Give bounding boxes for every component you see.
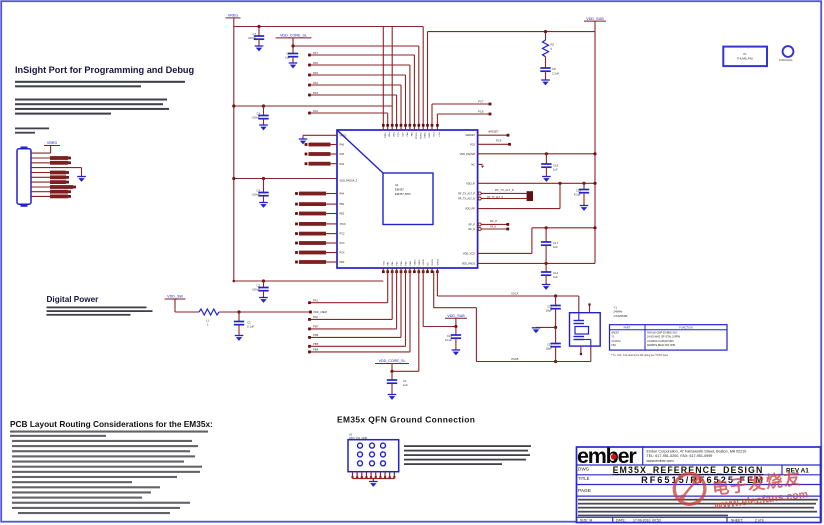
svg-text:18pF: 18pF <box>546 347 553 351</box>
svg-text:EM357: EM357 <box>395 188 404 192</box>
svg-text:0.1uF: 0.1uF <box>247 325 254 329</box>
net VBRD label <box>44 141 60 145</box>
IC right pin labels <box>458 134 476 265</box>
svg-text:SHEET:: SHEET: <box>731 518 743 522</box>
capacitor C1 <box>387 371 408 400</box>
net VDD_SW label <box>165 295 186 299</box>
heading Digital Power <box>47 295 100 304</box>
svg-text:PAGE: PAGE <box>578 488 591 494</box>
wire OSCA <box>437 271 578 298</box>
capacitor C3 <box>234 312 255 341</box>
svg-text:2.2uF: 2.2uF <box>552 71 559 75</box>
wire top rail A <box>234 26 423 28</box>
svg-text:VDD_SW: VDD_SW <box>167 295 183 299</box>
svg-text:NC: NC <box>428 262 430 266</box>
wire J1 pin net SWCLK <box>31 190 71 194</box>
svg-text:DATE:: DATE: <box>616 518 626 522</box>
wire VDD_SUB vertical rail <box>594 32 596 264</box>
svg-text:VDD_PADSM: VDD_PADSM <box>460 153 475 156</box>
wire J1 pin net TXD <box>31 156 71 160</box>
svg-text:OSCA: OSCA <box>511 292 519 296</box>
svg-text:C8: C8 <box>552 67 556 71</box>
IC left pin label PC2 <box>340 233 345 236</box>
IC left pin label PC3 <box>340 242 345 245</box>
label SHEET <box>731 518 764 522</box>
svg-text:1uF: 1uF <box>553 168 558 172</box>
svg-text:LOADING CAPACITORS: LOADING CAPACITORS <box>647 340 674 343</box>
svg-text:VDDC: VDDC <box>414 259 416 266</box>
wire rail y106 <box>232 104 392 124</box>
svg-text:OSCB: OSCB <box>419 133 421 140</box>
net VDD_CORE label bottom <box>375 359 409 363</box>
svg-text:PA5: PA5 <box>313 71 319 75</box>
svg-text:VDD_SUB: VDD_SUB <box>447 314 465 318</box>
svg-text:OSCA: OSCA <box>414 133 417 140</box>
label PAGE <box>578 488 591 494</box>
svg-text:EM35x QFN Ground Connection: EM35x QFN Ground Connection <box>337 415 475 425</box>
svg-text:PC6: PC6 <box>478 109 484 113</box>
svg-text:VBRD: VBRD <box>47 141 58 145</box>
svg-text:100nF: 100nF <box>252 288 260 292</box>
label REV A1 <box>786 468 809 475</box>
svg-text:PB6: PB6 <box>313 333 319 337</box>
wire RF_P <box>478 219 509 226</box>
svg-text:PC6: PC6 <box>496 139 502 143</box>
wire J1 pin net nRST <box>31 180 69 184</box>
svg-text:VDD_RF: VDD_RF <box>465 208 475 211</box>
wire crystal top pin <box>578 296 580 313</box>
net VDD_SUB label top <box>584 17 606 21</box>
wire RF_TX_ALT_P <box>478 188 526 195</box>
svg-text:SIZE: M: SIZE: M <box>580 518 592 522</box>
svg-text:VDD_MEM: VDD_MEM <box>313 310 328 314</box>
resistor R2 <box>543 30 555 57</box>
heading PCB Layout <box>10 419 213 429</box>
wire PC6 <box>437 109 491 125</box>
watermark elecfans <box>673 459 809 516</box>
wire VDD_SUB stem <box>594 21 596 32</box>
QFN pad footprint <box>348 432 399 471</box>
IC left pin labels group1 <box>340 134 347 165</box>
svg-text:JTCK: JTCK <box>340 223 347 226</box>
logo ember <box>577 444 637 468</box>
ground IC left <box>299 139 308 144</box>
svg-text:VDD_CORE_SL: VDD_CORE_SL <box>378 359 405 363</box>
wire VDD_RF <box>478 182 562 209</box>
title RF6515 FEM <box>641 475 765 485</box>
svg-text:OSCA: OSCA <box>436 259 439 266</box>
svg-text:PA0: PA0 <box>313 315 319 319</box>
PCB layout bullet text <box>10 431 208 515</box>
wire VDD_VCO <box>478 226 597 253</box>
label DATE <box>616 518 661 522</box>
svg-text:VDD1: VDD1 <box>383 133 385 140</box>
label DWG <box>578 466 590 471</box>
svg-text:U1: U1 <box>395 183 399 187</box>
net VDD_CORE label top <box>276 34 312 38</box>
net VREG label <box>226 14 241 18</box>
wire stub left PB6 <box>305 143 337 147</box>
svg-text:Ember Corporation, 47 Farnswor: Ember Corporation, 47 Farnsworth Street,… <box>647 449 747 453</box>
svg-text:PA3: PA3 <box>313 91 319 95</box>
wire VDD_PADSM <box>478 152 597 155</box>
wire J1 pin net RXD <box>31 161 71 165</box>
capacitor C19 <box>574 183 589 211</box>
svg-text:100nF: 100nF <box>248 36 256 40</box>
svg-text:VDD_SUB: VDD_SUB <box>586 17 604 21</box>
svg-text:0.1uF: 0.1uF <box>445 338 452 342</box>
capacitor C7 <box>248 25 264 52</box>
capacitor C8 <box>540 57 559 86</box>
svg-text:CX3225SB: CX3225SB <box>614 314 628 318</box>
wire stub PB7 bottom <box>308 271 397 330</box>
IC bottom pin labels <box>383 259 439 266</box>
wire RF_TX_ALT_N <box>478 196 526 200</box>
IC left pin label JTCK <box>340 223 347 226</box>
svg-text:PCB Layout Routing Considerati: PCB Layout Routing Considerations for th… <box>10 419 213 429</box>
wire VDD_CORE to rail <box>291 38 418 125</box>
wire crystal bottom stub <box>580 346 582 355</box>
label Y1 <box>614 306 628 318</box>
heading EM35x QFN Ground Connection <box>337 415 475 425</box>
wire C11 C12 junction to ground <box>536 326 556 328</box>
capacitor C12 <box>546 327 561 363</box>
wire rail A drop 2 <box>391 27 393 107</box>
svg-text:RF_TX_ALT_P: RF_TX_ALT_P <box>495 188 514 192</box>
wire stub PB5 bottom <box>308 271 405 348</box>
svg-text:SINGLE-CHIP ZIGBEE SOC: SINGLE-CHIP ZIGBEE SOC <box>647 332 678 335</box>
capacitor C13 <box>445 327 461 356</box>
svg-text:EM357: EM357 <box>612 332 620 335</box>
svg-text:PB2: PB2 <box>340 213 345 216</box>
svg-text:FERRITE BEAD 600 OHM: FERRITE BEAD 600 OHM <box>647 344 675 347</box>
ground oscillator <box>532 328 541 333</box>
svg-text:18pF: 18pF <box>546 309 553 313</box>
wire VDD_CORE bottom <box>390 271 418 373</box>
svg-text:FB1: FB1 <box>612 344 617 347</box>
wire crystal top stub <box>588 303 590 312</box>
wire stub left PC3 <box>295 241 337 245</box>
IC top pin labels <box>383 133 439 140</box>
wire stub PA2 <box>308 109 388 125</box>
svg-text:OSCB: OSCB <box>432 259 434 266</box>
svg-text:PB4: PB4 <box>313 348 319 352</box>
svg-text:nRESET: nRESET <box>488 130 499 134</box>
wire rail y178 <box>232 177 337 180</box>
terminator RF_TX block <box>527 191 533 201</box>
disclaimer text <box>578 499 818 517</box>
wire J1 pin4 to ground <box>31 168 82 177</box>
svg-text:RF_N: RF_N <box>490 225 497 228</box>
IC top pins <box>382 124 439 130</box>
svg-text:VDD_CORE_SL: VDD_CORE_SL <box>280 34 307 38</box>
title block frame <box>577 447 821 523</box>
svg-text:R2: R2 <box>551 43 555 47</box>
wire J1 pin net PTF <box>31 195 71 199</box>
svg-text:RF_N: RF_N <box>468 228 475 231</box>
junction C3 <box>237 310 240 313</box>
wire VREG stem <box>233 18 235 27</box>
wire rail A drop 1 <box>382 27 384 125</box>
wire stub PB6 bottom <box>308 271 401 339</box>
label SIZE <box>580 518 592 522</box>
ground J1 <box>77 177 86 182</box>
capacitor C4 <box>252 177 269 208</box>
wire PC7 <box>432 99 491 125</box>
connector J1 body <box>17 147 31 207</box>
wire VDD_SUB bottom <box>423 271 457 328</box>
svg-text:PB7: PB7 <box>313 325 319 329</box>
svg-text:PA5: PA5 <box>340 153 345 156</box>
svg-text:FIDUCIAL: FIDUCIAL <box>779 58 793 62</box>
inductor L1 <box>199 309 219 327</box>
address text <box>647 449 747 463</box>
IC left pin label PC4 <box>340 252 345 255</box>
label VDD_MEM <box>313 310 328 314</box>
svg-text:VDDC: VDDC <box>419 259 421 266</box>
wire L1 to rail <box>219 311 312 314</box>
svg-text:VREG: VREG <box>340 134 347 137</box>
wire bottom-left rail y281 <box>233 280 384 283</box>
IC pin label VDD_PADSA <box>340 179 358 182</box>
wire stub left PC2 <box>295 232 337 236</box>
svg-text:PART: PART <box>624 326 631 330</box>
svg-text:PA7: PA7 <box>313 51 319 55</box>
svg-text:PB5: PB5 <box>313 342 319 346</box>
paragraph 2 <box>15 99 169 115</box>
component P1 thermal pad box <box>723 47 767 67</box>
svg-text:VREG: VREG <box>228 14 238 18</box>
paragraph 1 <box>15 81 185 88</box>
title EM35X_REFERENCE_DESIGN <box>613 465 764 475</box>
wire stub PA6 <box>308 61 410 125</box>
wire stub PA7 <box>308 51 414 125</box>
svg-text:PA4: PA4 <box>313 81 319 85</box>
svg-text:100nF: 100nF <box>252 193 260 197</box>
wire stub PA0 bottom <box>308 271 392 321</box>
fiducial FID1 <box>779 46 793 62</box>
wire stub PA5 <box>308 71 405 125</box>
svg-text:2 of 9: 2 of 9 <box>755 518 764 522</box>
svg-text:VDD_IF: VDD_IF <box>466 182 475 185</box>
svg-text:C11/C12: C11/C12 <box>612 340 622 343</box>
svg-text:1uF: 1uF <box>403 383 408 387</box>
wire VDD_PADS <box>478 262 595 265</box>
QFN note text <box>404 445 531 465</box>
capacitor C17 <box>541 228 559 264</box>
svg-text:PB1: PB1 <box>340 203 345 206</box>
svg-text:Digital Power: Digital Power <box>47 295 100 304</box>
svg-text:1uF: 1uF <box>553 245 558 249</box>
svg-text:RF_TX_ALT_N: RF_TX_ALT_N <box>487 196 503 199</box>
svg-text:PC7: PC7 <box>478 99 484 103</box>
wire stub left PB0 <box>295 260 337 264</box>
svg-text:VDD_VCO: VDD_VCO <box>463 253 475 256</box>
svg-text:InSight Port for Programming a: InSight Port for Programming and Debug <box>15 65 194 75</box>
svg-text:FUNCTION: FUNCTION <box>679 326 693 330</box>
wire J1 pin net PCLK <box>31 171 69 175</box>
svg-text:PA6: PA6 <box>313 61 319 65</box>
svg-text:RF_TX_ALT_P: RF_TX_ALT_P <box>458 193 475 196</box>
table note <box>611 354 669 357</box>
svg-text:PA1: PA1 <box>313 299 319 303</box>
svg-text:PB0: PB0 <box>340 261 345 264</box>
svg-text:* Y1, C11, C12 determine RF ra: * Y1, C11, C12 determine RF rating per T… <box>611 354 669 357</box>
svg-text:PA2: PA2 <box>313 109 319 113</box>
op-amp U1 EM357 body <box>337 130 478 268</box>
svg-text:24.000 MHZ CRYSTAL 10PPM: 24.000 MHZ CRYSTAL 10PPM <box>647 336 680 339</box>
svg-text:PA4: PA4 <box>340 163 345 166</box>
svg-text:OSCB: OSCB <box>511 357 519 361</box>
svg-text:RF_P: RF_P <box>490 219 497 223</box>
heading InSight Port <box>15 65 194 75</box>
wire to inductor L1 <box>175 311 199 313</box>
svg-text:VSS: VSS <box>383 261 385 266</box>
wire stub PB4 bottom <box>308 271 410 353</box>
wire stub PA3 <box>308 91 397 125</box>
svg-text:PA4: PA4 <box>340 193 345 196</box>
wire stub left PA3 <box>305 162 337 166</box>
svg-text:PA6: PA6 <box>340 144 345 147</box>
table crystal parts <box>610 325 728 350</box>
wire stub left PA4 <box>295 192 337 196</box>
svg-text:SWO: SWO <box>428 133 430 139</box>
wire VBRD to J1 pin1 <box>31 146 51 154</box>
svg-text:8.2pF: 8.2pF <box>574 193 581 197</box>
net VDD_SUB label bottom <box>445 314 467 318</box>
digital power text <box>47 307 153 316</box>
svg-text:VDD_PADSA_2: VDD_PADSA_2 <box>340 179 358 182</box>
label TITLE <box>578 476 590 481</box>
wire J1 pin net PTM <box>31 175 69 179</box>
wire RF_N <box>478 225 509 230</box>
IC left pin label PB2 <box>340 213 345 216</box>
svg-text:nRESET: nRESET <box>465 134 475 137</box>
capacitor C14 <box>541 263 559 290</box>
svg-text:PC4: PC4 <box>340 252 345 255</box>
wire OSCB <box>434 271 591 362</box>
svg-text:VSUB: VSUB <box>423 259 425 265</box>
wire J1 pin net nRESET <box>31 185 76 189</box>
wire stub left PB7 <box>305 152 337 156</box>
wire stub left PB1 <box>295 202 337 206</box>
note J1 text <box>15 128 49 134</box>
IC left pin label PA4 <box>340 193 345 196</box>
QFN ground vias <box>351 472 395 482</box>
svg-text:TEL: 617-951-0200, FAX: 617-95: TEL: 617-951-0200, FAX: 617-951-0999 <box>647 454 713 458</box>
wire stub PA4 <box>308 81 401 125</box>
svg-text:EM357-RTR: EM357-RTR <box>395 192 411 196</box>
svg-text:VDD2: VDD2 <box>423 133 425 140</box>
svg-text:VDD_PADS: VDD_PADS <box>462 262 476 265</box>
capacitor C2 <box>252 279 269 303</box>
capacitor C5 <box>252 104 269 130</box>
svg-text:PC6: PC6 <box>470 144 475 147</box>
svg-text:1uF: 1uF <box>553 275 558 279</box>
crystal Y1 box <box>570 313 601 346</box>
wire stub left PC4 <box>295 251 337 255</box>
capacitor C6 <box>285 46 298 68</box>
svg-text:NC: NC <box>471 164 475 167</box>
pin NC stub <box>478 164 484 168</box>
svg-text:1uF: 1uF <box>285 56 290 60</box>
wire nRESET <box>478 130 510 137</box>
IC left pin label PB0 <box>340 261 345 264</box>
wire PC6 right <box>478 139 511 146</box>
wire VDD_IF <box>478 182 597 185</box>
svg-text:THUMB_PAD: THUMB_PAD <box>737 57 753 61</box>
wire IC left pin1 <box>303 135 337 139</box>
svg-text:www.ember.com: www.ember.com <box>647 459 674 463</box>
svg-text:TITLE: TITLE <box>578 476 590 481</box>
svg-text:PC3: PC3 <box>340 242 345 245</box>
svg-text:U1: U1 <box>349 432 353 436</box>
ground QFN <box>369 482 378 487</box>
wire crystal bottom pin <box>590 346 592 361</box>
IC bottom pins <box>382 268 439 273</box>
wire left vertical rail <box>233 27 235 282</box>
wire stub left PB2 <box>295 212 337 216</box>
svg-text:17-09-2010, 00:53: 17-09-2010, 00:53 <box>633 518 661 522</box>
wire stub left JTCK <box>295 222 337 226</box>
wire stub PA1 bottom <box>308 271 388 304</box>
IC left pin label PB1 <box>340 203 345 206</box>
svg-text:RF_P: RF_P <box>469 224 476 227</box>
svg-text:P1: P1 <box>743 52 747 56</box>
svg-text:PC2: PC2 <box>340 233 345 236</box>
capacitor C18 <box>541 154 558 182</box>
svg-text:100nF: 100nF <box>252 116 260 120</box>
wire rail A drop 3 <box>422 27 424 125</box>
svg-text:DWG: DWG <box>578 466 590 471</box>
svg-text:RF_TX_ALT_N: RF_TX_ALT_N <box>458 198 475 201</box>
wire VDD_SW down <box>174 299 176 312</box>
wire top rail B <box>428 32 596 125</box>
capacitor C11 <box>546 296 561 329</box>
